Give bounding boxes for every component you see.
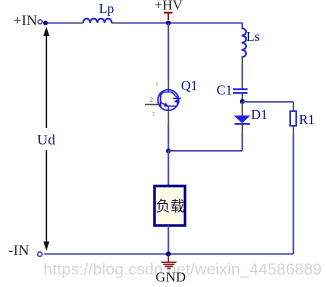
svg-text:+IN: +IN [13, 13, 37, 29]
node at +HV [166, 21, 171, 26]
wire Q1 emitter down to junction [167, 124, 169, 151]
svg-text:负载: 负载 [156, 199, 185, 216]
wire C1 junction to R1 [242, 102, 293, 111]
wire R1 down to bottom rail [292, 134, 294, 254]
diode D1 [235, 102, 250, 133]
wire bottom rail [44, 253, 293, 255]
inductor Ls [242, 28, 247, 89]
svg-text:C1: C1 [217, 82, 233, 97]
port -IN [8, 243, 42, 259]
svg-text:GND: GND [156, 271, 186, 286]
wire junction to D1 bottom [168, 133, 242, 151]
voltage arrow Ud [43, 27, 49, 252]
svg-text:D1: D1 [251, 107, 268, 122]
wire load down to bottom rail [167, 226, 169, 255]
svg-text:-IN: -IN [8, 243, 29, 259]
svg-text:Lp: Lp [99, 1, 114, 16]
svg-text:R1: R1 [299, 112, 315, 127]
svg-text:Ud: Ud [37, 132, 56, 148]
inductor Lp [74, 19, 119, 23]
svg-text:2: 2 [150, 96, 154, 104]
power port +HV [155, 0, 183, 20]
wire top rail corner down to Ls [241, 23, 243, 28]
resistor R1 [290, 111, 296, 134]
wire junction down to load [167, 151, 169, 186]
node at +IN [43, 21, 48, 26]
wire top rail [46, 22, 243, 24]
load box 负载 [155, 186, 186, 226]
svg-text:3: 3 [152, 112, 155, 118]
svg-text:Ls: Ls [246, 29, 259, 44]
node below Q1 [166, 149, 171, 154]
capacitor C1 [233, 89, 248, 102]
svg-text:Q1: Q1 [181, 78, 198, 93]
svg-text:1: 1 [156, 82, 159, 88]
svg-text:+HV: +HV [155, 0, 183, 13]
wire +HV down to Q1 collector [167, 23, 169, 80]
port +IN [13, 13, 42, 29]
node at bottom rail / GND [166, 252, 171, 257]
transistor Q1 [145, 80, 181, 124]
ground [161, 254, 176, 269]
node below C1 [240, 99, 245, 104]
